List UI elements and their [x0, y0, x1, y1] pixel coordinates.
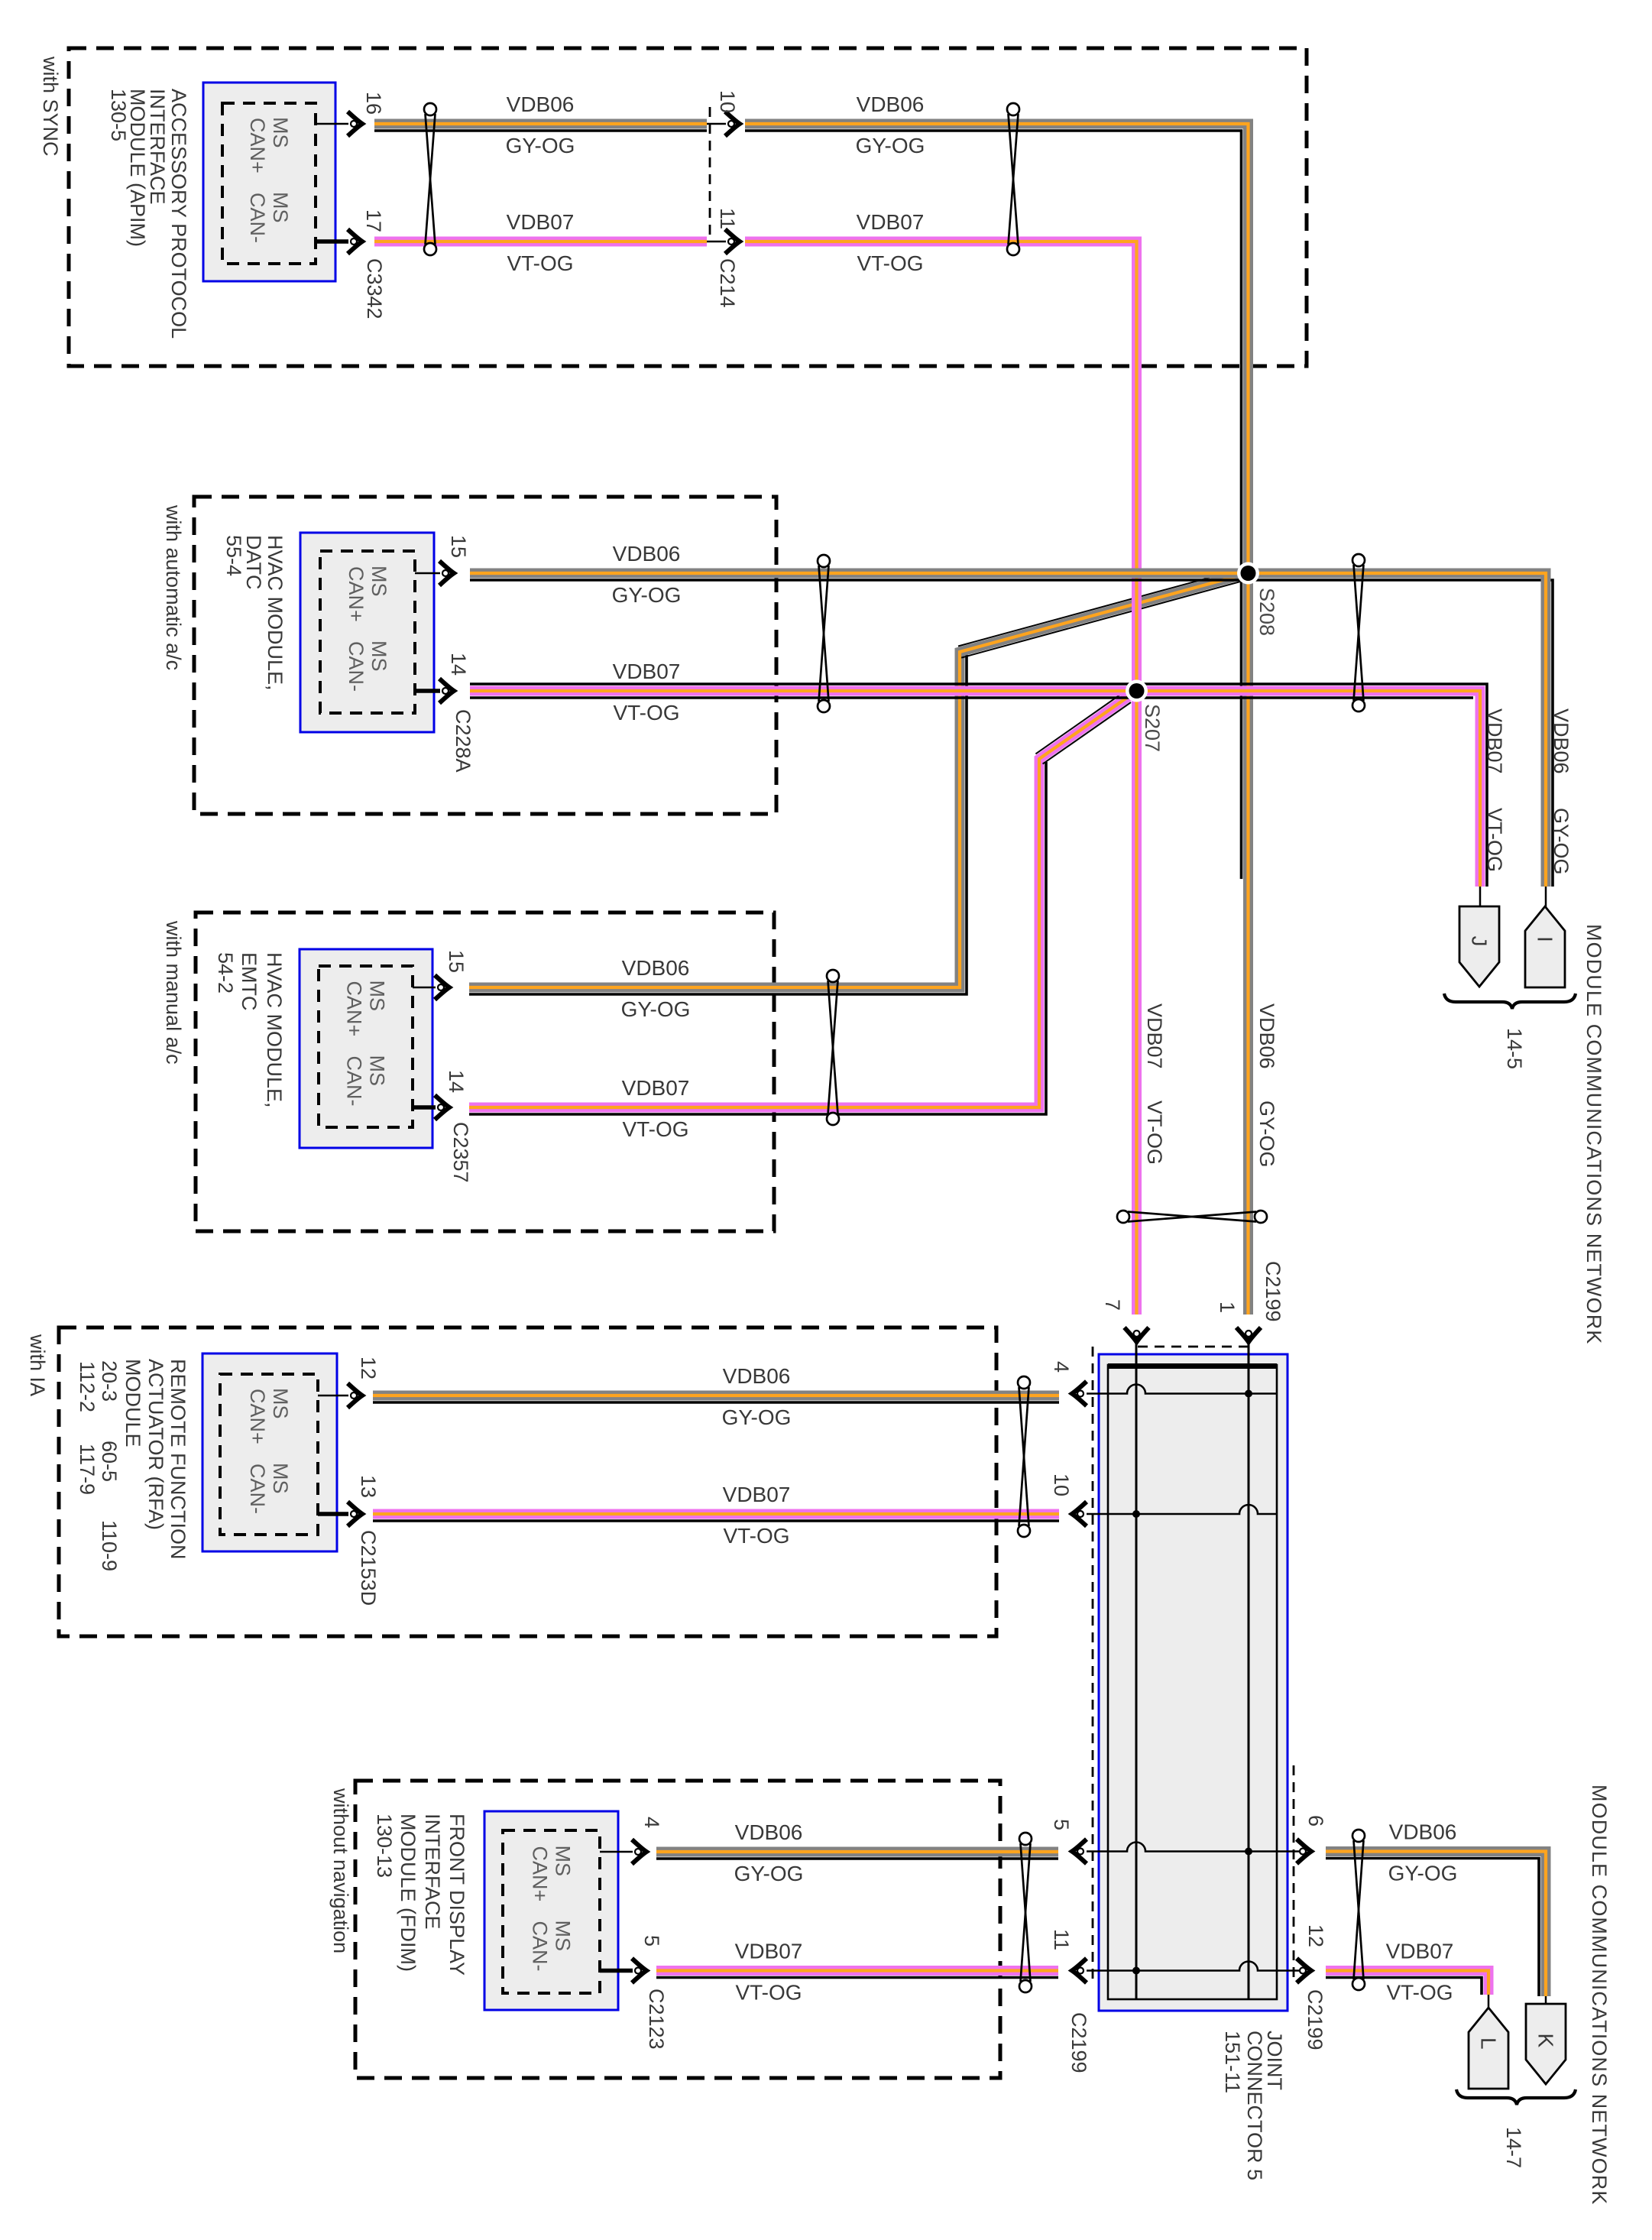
svg-text:13: 13	[357, 1475, 380, 1498]
pin 11 arrow C214	[725, 229, 740, 254]
inner dashed box EMTC MS CAN	[319, 966, 413, 1127]
svg-text:4: 4	[1050, 1361, 1073, 1373]
svg-text:with automatic a/c: with automatic a/c	[162, 504, 185, 670]
module box HVAC EMTC	[300, 949, 432, 1148]
svg-text:12: 12	[1304, 1924, 1327, 1947]
svg-text:VT-OG: VT-OG	[507, 251, 573, 275]
svg-text:VT-OG: VT-OG	[723, 1524, 789, 1548]
svg-text:FRONT DISPLAY: FRONT DISPLAY	[445, 1814, 468, 1976]
svg-text:C2153D: C2153D	[357, 1530, 380, 1606]
wire VDB06 GY-OG FDIM to joint connector	[656, 1852, 1058, 1859]
module box HVAC DATC	[300, 533, 434, 732]
pin 16 stub APIM	[316, 123, 348, 125]
junction dot row4 on VDB06 bus	[1245, 1390, 1252, 1398]
svg-text:VT-OG: VT-OG	[735, 1981, 802, 2005]
joint connector dashed outline top	[1138, 1346, 1250, 1348]
svg-text:MS: MS	[269, 1388, 292, 1419]
svg-text:VDB06: VDB06	[1389, 1820, 1457, 1844]
pin 14 arrow EMTC	[435, 1095, 449, 1120]
svg-text:MODULE: MODULE	[121, 1359, 144, 1447]
pin 1 arrow joint connector	[1236, 1327, 1261, 1342]
svg-text:MS: MS	[552, 1921, 575, 1952]
connector L	[1469, 2008, 1508, 2089]
inner dashed box DATC MS CAN	[320, 551, 415, 713]
svg-text:C2199: C2199	[1262, 1261, 1284, 1322]
svg-text:11: 11	[1050, 1929, 1073, 1950]
wire VDB06 GY-OG DATC to connector I	[470, 573, 1553, 887]
label MS CAN+ / MS CAN- (DATC)	[345, 566, 390, 692]
svg-text:with manual a/c: with manual a/c	[162, 920, 185, 1065]
pin 14 arrow DATC	[439, 679, 454, 703]
wire VDB07 VT-OG C214 to joint connector	[745, 242, 1137, 1315]
module box APIM	[203, 83, 335, 281]
svg-text:10: 10	[1050, 1473, 1073, 1496]
svg-text:VDB07: VDB07	[1386, 1940, 1454, 1963]
pin 12 arrow joint connector	[1297, 1959, 1311, 1983]
svg-text:VDB06: VDB06	[622, 956, 690, 980]
svg-text:GY-OG: GY-OG	[856, 134, 925, 157]
svg-text:VDB06: VDB06	[735, 1820, 803, 1844]
svg-text:VDB07: VDB07	[857, 210, 925, 234]
svg-text:20-3: 20-3	[98, 1360, 121, 1402]
svg-text:130-5: 130-5	[107, 89, 130, 141]
svg-text:112-2: 112-2	[76, 1361, 99, 1412]
lead to connector J	[1479, 887, 1482, 908]
twisted pair symbol right of joint connector	[1352, 1830, 1365, 1990]
svg-text:6: 6	[1304, 1815, 1327, 1827]
svg-text:VDB06: VDB06	[1255, 1003, 1278, 1069]
joint connector inner outline	[1108, 1365, 1277, 1999]
label MS CAN+ / MS CAN- (APIM)	[246, 117, 292, 243]
pin 4 arrow FDIM	[632, 1840, 646, 1864]
wire VDB07 VT-OG EMTC to S207	[469, 691, 1137, 1114]
svg-text:MS: MS	[366, 981, 389, 1012]
twisted pair symbol RFA	[1018, 1376, 1030, 1537]
svg-text:VDB06: VDB06	[1550, 708, 1573, 774]
svg-text:117-9: 117-9	[76, 1444, 99, 1495]
connector J	[1459, 906, 1499, 987]
svg-text:I: I	[1534, 936, 1557, 942]
pin 4 stub FDIM	[600, 1851, 633, 1853]
svg-text:VT-OG: VT-OG	[613, 701, 679, 725]
svg-text:VDB07: VDB07	[723, 1483, 791, 1506]
svg-text:14: 14	[447, 653, 470, 676]
svg-text:VT-OG: VT-OG	[1483, 808, 1506, 872]
svg-text:17: 17	[362, 209, 385, 232]
svg-text:7: 7	[1101, 1299, 1124, 1311]
dashed box: with manual a/c option	[196, 913, 774, 1231]
svg-text:C214: C214	[716, 258, 739, 308]
svg-text:EMTC: EMTC	[238, 952, 261, 1011]
junction dot row10 on VDB07 bus	[1132, 1510, 1140, 1518]
svg-text:VDB06: VDB06	[857, 92, 925, 116]
joint connector bus bar VDB06 (right)	[1248, 1331, 1250, 1999]
pin 14 stub DATC	[415, 689, 440, 693]
svg-text:ACTUATOR (RFA): ACTUATOR (RFA)	[144, 1359, 167, 1530]
svg-text:CAN+: CAN+	[343, 981, 366, 1037]
svg-text:CAN-: CAN-	[246, 1464, 269, 1514]
module box RFA	[202, 1353, 337, 1551]
svg-text:ACCESSORY PROTOCOL: ACCESSORY PROTOCOL	[167, 89, 190, 339]
svg-text:S207: S207	[1141, 704, 1164, 752]
svg-text:GY-OG: GY-OG	[734, 1862, 804, 1885]
pin 17 arrow APIM	[348, 229, 362, 254]
svg-text:1: 1	[1216, 1302, 1239, 1313]
svg-text:L: L	[1477, 2037, 1501, 2050]
pin 10 arrow C214	[725, 112, 740, 136]
connector I	[1525, 906, 1565, 987]
svg-text:C2199: C2199	[1067, 2012, 1090, 2073]
pin 6 arrow joint connector	[1297, 1840, 1311, 1864]
joint connector top bar	[1108, 1363, 1277, 1369]
label MS CAN+ / MS CAN- (RFA)	[246, 1388, 292, 1514]
svg-text:CAN-: CAN-	[529, 1921, 552, 1972]
wire VDB06 GY-OG joint connector to K	[1326, 1852, 1546, 1997]
pin 5 arrow FDIM	[632, 1959, 646, 1983]
svg-text:CAN+: CAN+	[246, 118, 269, 173]
joint connector 5 box	[1099, 1354, 1288, 2011]
label MS CAN+ / MS CAN- (FDIM)	[529, 1846, 575, 1972]
svg-text:VDB07: VDB07	[622, 1076, 690, 1100]
svg-text:CAN-: CAN-	[345, 641, 368, 692]
dashed box: with automatic a/c option	[194, 497, 776, 814]
inner dashed box FDIM MS CAN	[503, 1830, 600, 1993]
svg-text:GY-OG: GY-OG	[612, 583, 682, 607]
joint connector bus bar VDB07 (left)	[1135, 1331, 1138, 1999]
connector K	[1526, 2004, 1566, 2084]
dashed box: without navigation option	[355, 1781, 1000, 2078]
svg-text:16: 16	[362, 92, 385, 115]
wire VDB07 VT-OG DATC to connector J	[470, 684, 1487, 887]
svg-text:GY-OG: GY-OG	[506, 134, 575, 157]
pin 17 stub APIM	[316, 239, 348, 244]
svg-text:5: 5	[1050, 1819, 1073, 1830]
svg-text:VDB07: VDB07	[1483, 708, 1506, 774]
twisted pair symbol right of C214	[1007, 103, 1019, 255]
black line below VDB07 DATC	[470, 696, 1473, 699]
svg-text:CONNECTOR 5: CONNECTOR 5	[1243, 2031, 1266, 2180]
svg-text:14-5: 14-5	[1503, 1028, 1526, 1069]
pin 13 stub RFA	[318, 1512, 348, 1516]
svg-text:10: 10	[716, 90, 739, 113]
twisted pair symbol right of S208	[1352, 554, 1365, 712]
svg-text:VDB06: VDB06	[507, 92, 575, 116]
wire VDB07 VT-OG RFA to joint connector	[373, 1514, 1059, 1521]
svg-text:MODULE COMMUNICATIONS NETWORK: MODULE COMMUNICATIONS NETWORK	[1582, 924, 1605, 1344]
svg-text:GY-OG: GY-OG	[722, 1405, 792, 1429]
svg-text:without navigation: without navigation	[329, 1788, 352, 1953]
pin 13 arrow RFA	[348, 1502, 362, 1526]
svg-text:60-5: 60-5	[98, 1441, 121, 1482]
svg-text:CAN+: CAN+	[246, 1389, 269, 1444]
svg-text:GY-OG: GY-OG	[1550, 808, 1573, 875]
svg-text:54-2: 54-2	[214, 952, 237, 994]
svg-text:VDB07: VDB07	[507, 210, 575, 234]
joint connector dashed outline left	[1092, 1347, 1094, 1983]
brace 14-5	[1444, 994, 1576, 1009]
wire VDB06 GY-OG RFA to joint connector	[373, 1396, 1059, 1402]
svg-text:C2357: C2357	[449, 1122, 472, 1183]
svg-text:VT-OG: VT-OG	[1386, 1981, 1453, 2005]
label MS CAN+ / MS CAN- (EMTC)	[343, 981, 389, 1107]
svg-text:MS: MS	[269, 192, 292, 223]
junction dot row11 on VDB07 bus	[1132, 1967, 1140, 1975]
svg-text:J: J	[1468, 936, 1492, 947]
svg-text:5: 5	[640, 1935, 663, 1947]
wire VDB06 GY-OG C214 to joint connector	[745, 124, 1249, 1315]
junction dot row5 on VDB06 bus	[1245, 1848, 1252, 1856]
svg-text:K: K	[1534, 2034, 1558, 2048]
svg-text:11: 11	[716, 208, 739, 229]
svg-text:C2123: C2123	[645, 1989, 668, 2050]
diagonal outline VDB07 EMTC	[1035, 687, 1132, 764]
svg-text:12: 12	[357, 1357, 380, 1379]
svg-text:VDB07: VDB07	[1143, 1003, 1166, 1069]
pin 4 arrow joint connector	[1072, 1382, 1087, 1406]
wire VDB07 VT-OG APIM to C214	[374, 237, 707, 247]
svg-text:VDB07: VDB07	[613, 660, 681, 683]
svg-text:CAN-: CAN-	[246, 193, 269, 243]
svg-text:55-4: 55-4	[222, 535, 245, 576]
pin 15 arrow EMTC	[435, 975, 449, 1000]
wire VDB06 GY-OG APIM to C214	[374, 124, 707, 131]
svg-text:GY-OG: GY-OG	[1388, 1862, 1458, 1885]
svg-text:C228A: C228A	[452, 709, 475, 773]
pin 14 stub EMTC	[413, 1105, 436, 1110]
svg-text:VDB06: VDB06	[613, 542, 681, 566]
svg-text:HVAC MODULE,: HVAC MODULE,	[264, 535, 287, 691]
svg-text:MS: MS	[269, 117, 292, 148]
svg-text:CAN-: CAN-	[343, 1056, 366, 1107]
svg-text:MODULE (FDIM): MODULE (FDIM)	[397, 1814, 419, 1972]
joint connector dashed outline right	[1293, 1765, 1295, 1983]
pin 11 stub C214	[707, 241, 726, 243]
pin 11 arrow joint connector	[1072, 1959, 1087, 1983]
svg-text:CAN+: CAN+	[345, 566, 368, 622]
svg-text:with IA: with IA	[26, 1334, 49, 1396]
pin 12 arrow RFA	[348, 1383, 362, 1408]
svg-text:15: 15	[447, 535, 470, 558]
diagonal outline VDB06 EMTC	[958, 569, 1244, 658]
joint connector row pin 5-6	[1087, 1843, 1299, 1852]
svg-text:INTERFACE: INTERFACE	[421, 1814, 444, 1930]
lead to connector K	[1545, 1996, 1547, 2005]
brace 14-7	[1456, 2089, 1576, 2105]
svg-text:VDB07: VDB07	[735, 1940, 803, 1963]
svg-text:MS: MS	[552, 1846, 575, 1877]
pin 16 arrow APIM	[348, 112, 362, 136]
svg-text:VT-OG: VT-OG	[857, 251, 923, 275]
pin 15 arrow DATC	[439, 561, 454, 585]
twisted pair symbol above joint connector	[1117, 1211, 1267, 1223]
inner dashed box RFA MS CAN	[220, 1374, 318, 1535]
svg-text:CAN+: CAN+	[529, 1846, 552, 1902]
twisted pair symbol FDIM	[1019, 1833, 1032, 1992]
wire VDB06 GY-OG EMTC to S208	[469, 573, 1249, 994]
svg-text:VDB06: VDB06	[723, 1364, 791, 1388]
svg-text:MODULE COMMUNICATIONS NETWORK: MODULE COMMUNICATIONS NETWORK	[1588, 1785, 1611, 2205]
inner dashed box APIM MS CAN	[222, 103, 316, 264]
svg-text:VT-OG: VT-OG	[622, 1117, 688, 1141]
joint connector row pin 11-12	[1087, 1962, 1299, 1971]
svg-text:4: 4	[640, 1817, 663, 1828]
twisted pair symbol DATC	[818, 555, 830, 712]
svg-text:S208: S208	[1255, 588, 1278, 636]
svg-text:MS: MS	[269, 1463, 292, 1494]
inline connector C214 dashed line	[709, 107, 711, 238]
svg-text:MS: MS	[368, 566, 390, 597]
svg-text:14-7: 14-7	[1502, 2127, 1525, 2168]
module box FDIM	[484, 1811, 618, 2010]
svg-text:GY-OG: GY-OG	[621, 997, 691, 1021]
pin 10 stub C214	[707, 123, 726, 125]
pin 12 stub RFA	[318, 1395, 348, 1397]
splice S208	[1237, 562, 1259, 585]
svg-text:MS: MS	[368, 640, 390, 672]
svg-text:14: 14	[445, 1070, 468, 1093]
pin 15 stub EMTC	[413, 987, 436, 989]
svg-text:130-13: 130-13	[373, 1814, 396, 1878]
svg-text:110-9: 110-9	[98, 1520, 121, 1571]
splice S207	[1126, 680, 1148, 702]
pin 5 stub FDIM	[600, 1969, 633, 1973]
pin 15 stub DATC	[415, 572, 440, 575]
joint connector row pin 4	[1087, 1385, 1277, 1394]
svg-text:15: 15	[445, 950, 468, 973]
svg-text:151-11: 151-11	[1221, 2031, 1244, 2093]
dashed box: with SYNC option	[69, 48, 1307, 366]
svg-text:C2199: C2199	[1304, 1989, 1326, 2050]
twisted pair symbol EMTC	[827, 970, 839, 1125]
svg-text:with SYNC: with SYNC	[39, 56, 62, 157]
svg-text:C3342: C3342	[363, 258, 386, 319]
svg-text:REMOTE FUNCTION: REMOTE FUNCTION	[167, 1359, 189, 1560]
lead to connector L	[1488, 1995, 1490, 2009]
svg-text:VT-OG: VT-OG	[1143, 1101, 1166, 1165]
wire VDB07 VT-OG joint connector to L	[1326, 1971, 1488, 1995]
dashed box: with IA option	[59, 1327, 996, 1636]
pin 10 arrow joint connector	[1072, 1502, 1087, 1526]
twisted pair symbol APIM	[424, 103, 436, 255]
pin 7 arrow joint connector	[1125, 1327, 1149, 1342]
joint connector row pin 10	[1087, 1505, 1277, 1514]
svg-text:MS: MS	[366, 1055, 389, 1087]
svg-text:GY-OG: GY-OG	[1255, 1101, 1278, 1168]
lead to connector I	[1545, 887, 1547, 908]
pin 5 arrow joint connector	[1072, 1840, 1087, 1864]
wire VDB07 VT-OG FDIM to joint connector	[656, 1971, 1058, 1978]
svg-text:HVAC MODULE,: HVAC MODULE,	[263, 952, 286, 1108]
